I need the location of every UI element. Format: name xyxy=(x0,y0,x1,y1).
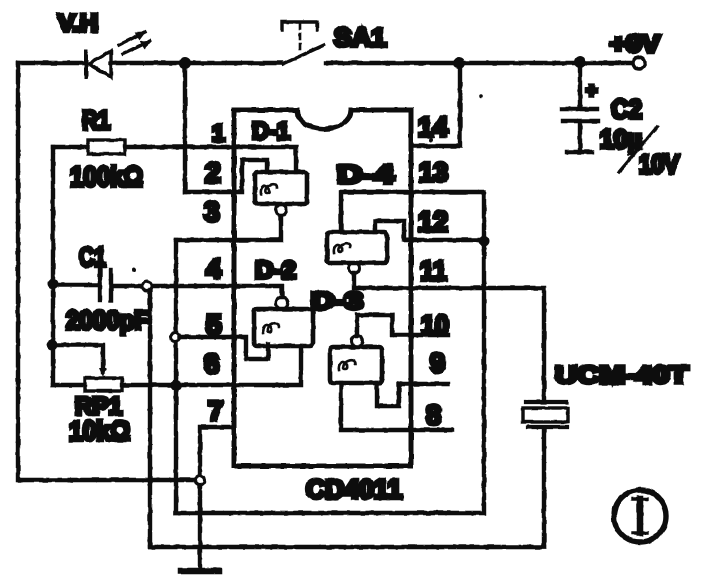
svg-text:5: 5 xyxy=(206,309,222,340)
gate D-1 xyxy=(252,118,307,216)
svg-text:10µ: 10µ xyxy=(600,124,642,154)
svg-text:+: + xyxy=(586,81,597,102)
wire pin3-to-rail vertical xyxy=(174,240,178,513)
svg-text:12: 12 xyxy=(418,206,448,237)
capacitor C1 xyxy=(53,242,149,335)
gate D-2 xyxy=(254,257,313,346)
ground xyxy=(181,568,219,575)
stray mark near C1 xyxy=(132,268,136,272)
wire pin11 line (D-4 out to transducer) xyxy=(354,273,544,399)
svg-text:10kΩ: 10kΩ xyxy=(69,416,130,446)
transducer UCM-40T xyxy=(523,362,688,547)
node pin12/13 junction xyxy=(479,236,490,247)
svg-text:D-2: D-2 xyxy=(255,257,296,284)
svg-text:C2: C2 xyxy=(611,94,642,124)
wire pin2 line zigzag to D-1 input xyxy=(185,160,267,192)
svg-text:8: 8 xyxy=(426,400,441,430)
wire top rail left segment xyxy=(18,61,84,65)
IC CD4011 outline xyxy=(234,110,411,466)
wire pin7 line to ground xyxy=(200,427,234,567)
figure number I xyxy=(614,490,666,542)
svg-text:CD4011: CD4011 xyxy=(306,474,402,504)
potentiometer RP1 xyxy=(53,378,130,446)
svg-text:D-4: D-4 xyxy=(337,161,394,189)
svg-text:+9V: +9V xyxy=(610,31,660,58)
svg-text:100kΩ: 100kΩ xyxy=(70,161,143,192)
wire bottom rail xyxy=(150,545,544,549)
svg-text:9: 9 xyxy=(430,348,445,378)
svg-text:13: 13 xyxy=(419,157,448,187)
wire pin5 line xyxy=(179,337,268,359)
node RP1 wiper junction xyxy=(47,340,58,351)
svg-text:2: 2 xyxy=(205,157,221,188)
wire LED to switch xyxy=(111,61,281,65)
svg-text:7: 7 xyxy=(208,396,223,426)
svg-text:SA1: SA1 xyxy=(334,24,386,52)
svg-text:3: 3 xyxy=(204,196,220,227)
gate D-4 xyxy=(327,161,394,274)
svg-text:2000pF: 2000pF xyxy=(66,305,149,335)
svg-text:6: 6 xyxy=(204,348,220,379)
stray mark below top rail xyxy=(479,94,483,98)
node pin5 circle xyxy=(171,333,180,342)
wire RP1 wiper xyxy=(52,345,103,372)
node ground rail circle xyxy=(196,476,205,485)
+9V terminal xyxy=(633,57,645,69)
LED VH xyxy=(86,32,150,77)
wire pin9 line with U jog xyxy=(377,383,448,406)
wire D-3 output to pin10 xyxy=(357,315,448,336)
svg-text:V.H: V.H xyxy=(58,10,98,37)
wire junction down to mid rail xyxy=(176,241,484,513)
svg-text:10V: 10V xyxy=(639,149,680,179)
wire pin12 line xyxy=(375,221,484,240)
svg-text:4: 4 xyxy=(206,254,221,284)
resistor R1 xyxy=(53,105,143,192)
svg-text:11: 11 xyxy=(420,255,447,286)
node C1 tap circle xyxy=(143,282,152,291)
wire pin13 line xyxy=(341,192,484,241)
node junction top-left xyxy=(179,57,191,69)
svg-text:1: 1 xyxy=(212,120,225,146)
switch SA1 xyxy=(282,22,324,64)
svg-text:R1: R1 xyxy=(82,105,110,135)
wire left rail xyxy=(18,63,196,480)
node C1 left junction xyxy=(48,279,59,290)
svg-text:D-1: D-1 xyxy=(252,118,290,145)
wire R1 left drop xyxy=(51,147,55,385)
node pin6 junction xyxy=(171,380,182,391)
node C2 rail junction xyxy=(574,56,586,68)
svg-text:D-3: D-3 xyxy=(311,288,363,315)
wire pin1 line xyxy=(125,147,296,172)
wire rail to pin2 drop xyxy=(183,63,187,192)
node pin14 rail junction xyxy=(453,57,465,69)
stray mark under pin 14 xyxy=(429,138,433,142)
svg-text:C1: C1 xyxy=(79,242,106,272)
wire pin14 xyxy=(411,63,460,146)
wire pin6 line xyxy=(122,346,301,385)
wire pin3 line xyxy=(176,216,281,240)
wire pin4 line xyxy=(111,286,282,297)
wire switch to +9V terminal xyxy=(326,61,632,65)
wire pin8 line xyxy=(341,383,452,430)
wire C1 tap down to bottom rail xyxy=(148,290,152,547)
svg-text:14: 14 xyxy=(418,112,448,142)
gate D-3 xyxy=(311,288,382,383)
svg-text:UCM-40T: UCM-40T xyxy=(555,362,688,389)
capacitor C2 xyxy=(562,62,680,179)
